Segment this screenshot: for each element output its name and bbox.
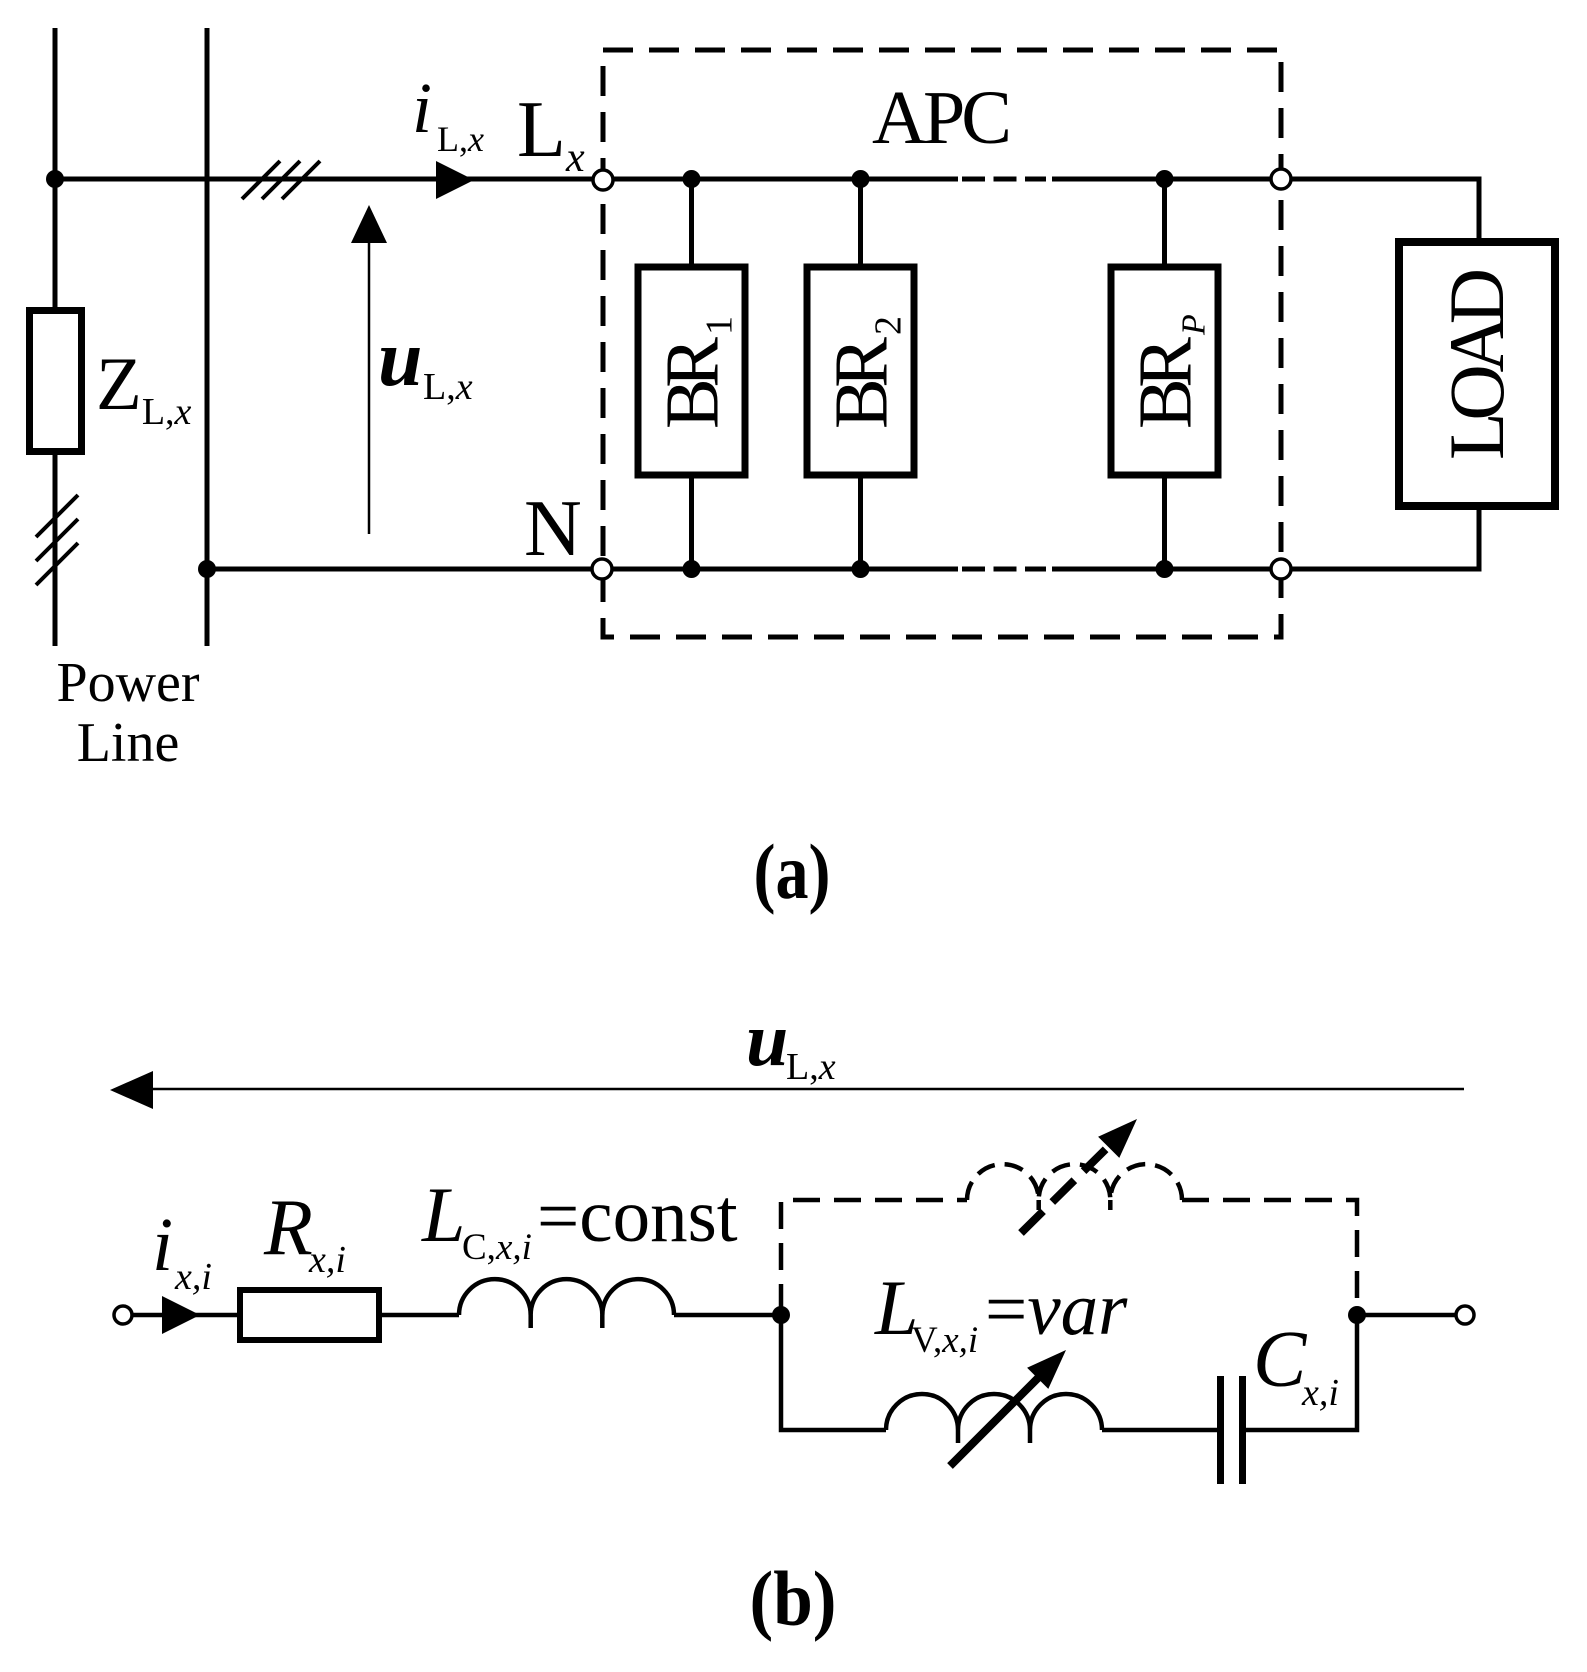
svg-text:L,x: L,x — [437, 119, 484, 159]
node dot BRP top — [1156, 170, 1174, 188]
wire top rail right with corner to LOAD — [1052, 179, 1479, 238]
node dot parallel right — [1348, 1306, 1366, 1324]
svg-text:BR: BR — [651, 337, 735, 429]
svg-text:i: i — [412, 68, 432, 148]
svg-text:u: u — [378, 315, 423, 403]
variable inductor L_V,x,i (bottom branch) — [886, 1394, 1102, 1430]
svg-text:(a): (a) — [754, 828, 831, 915]
node input open terminal — [114, 1306, 132, 1324]
node L_x open terminal — [593, 170, 613, 190]
wire output — [1357, 1313, 1456, 1318]
svg-text:C: C — [1253, 1316, 1308, 1404]
current arrow i_x,i — [162, 1296, 200, 1334]
svg-text:(b): (b) — [750, 1555, 837, 1642]
svg-text:1: 1 — [699, 316, 741, 335]
svg-text:x: x — [565, 135, 585, 181]
wire bottom rail left — [207, 567, 958, 572]
wire BR2 top stub — [858, 179, 863, 264]
variable inductor dashed cusp marks — [1039, 1200, 1111, 1210]
wire bottom rail right with corner to LOAD — [1052, 510, 1479, 569]
wire bottom branch left — [781, 1315, 886, 1430]
wire power-line bus 2 — [205, 28, 210, 646]
node output open terminal — [1456, 1306, 1474, 1324]
branch box BR1 — [638, 267, 745, 475]
wire R to L_C — [382, 1313, 459, 1318]
variable inductor dashed (top branch) — [967, 1164, 1182, 1200]
node dot parallel left — [772, 1306, 790, 1324]
branch box BRP — [1111, 267, 1218, 475]
svg-text:Power: Power — [56, 652, 199, 714]
wire power-line bus 1 lower segment — [53, 455, 58, 646]
svg-text:C,x,i: C,x,i — [462, 1227, 532, 1268]
svg-text:=var: =var — [985, 1268, 1128, 1351]
wire BR1 top stub — [689, 179, 694, 264]
wire BRP top stub — [1162, 179, 1167, 264]
svg-text:Line: Line — [77, 712, 180, 774]
break slashes on power line 1 — [36, 495, 78, 585]
wire top branch dashed left — [781, 1200, 967, 1311]
svg-text:P: P — [1176, 314, 1213, 336]
svg-text:APC: APC — [872, 76, 1012, 160]
svg-text:BR: BR — [1124, 337, 1208, 429]
svg-text:=const: =const — [537, 1175, 738, 1258]
branch box BR2 — [807, 267, 914, 475]
svg-text:BR: BR — [820, 337, 904, 429]
node dot BR2 bottom — [852, 560, 870, 578]
wire BR1 bottom stub — [689, 478, 694, 569]
node dot BR2 top — [852, 170, 870, 188]
svg-text:LOAD: LOAD — [1433, 268, 1520, 460]
svg-text:i: i — [152, 1203, 173, 1287]
node N open terminal — [592, 559, 612, 579]
capacitor C_x,i — [1221, 1376, 1243, 1484]
wire input — [132, 1313, 237, 1318]
wire L_V to capacitor — [1102, 1428, 1217, 1433]
inductor L_C,x,i — [459, 1279, 674, 1315]
resistor R_x,i — [240, 1290, 379, 1340]
wire top rail left — [55, 177, 958, 182]
voltage arrow u_L,x — [368, 242, 371, 534]
wire BRP bottom stub — [1162, 478, 1167, 569]
wire bottom rail dashed middle — [962, 567, 1046, 572]
break slashes on top rail — [242, 161, 320, 199]
svg-text:x,i: x,i — [174, 1256, 212, 1298]
svg-text:2: 2 — [868, 316, 910, 335]
svg-text:L: L — [421, 1171, 465, 1258]
variable arrow solid (bottom) — [950, 1371, 1045, 1466]
wire power-line bus 1 upper segment — [53, 28, 58, 307]
wire BR2 bottom stub — [858, 478, 863, 569]
variable arrow dashed (top) — [1021, 1145, 1110, 1233]
svg-text:V,x,i: V,x,i — [911, 1320, 978, 1361]
svg-text:N: N — [524, 485, 582, 573]
svg-text:R: R — [263, 1184, 313, 1272]
node dot power line 2 / bottom rail — [198, 560, 216, 578]
svg-text:x,i: x,i — [308, 1239, 346, 1281]
wire capacitor to right node — [1246, 1315, 1357, 1430]
wire top branch dashed right — [1182, 1200, 1357, 1311]
svg-text:L: L — [517, 86, 566, 174]
current arrow i_L,x — [436, 161, 474, 199]
APC dashed box — [603, 50, 1281, 637]
node open terminal APC right top — [1271, 169, 1291, 189]
node dot BRP bottom — [1156, 560, 1174, 578]
node open terminal APC right bottom — [1271, 559, 1291, 579]
wire top rail dashed middle — [962, 177, 1046, 182]
node dot BR1 top — [683, 170, 701, 188]
node dot BR1 bottom — [683, 560, 701, 578]
wire L_C to node — [674, 1313, 781, 1318]
svg-text:x,i: x,i — [1301, 1372, 1339, 1414]
svg-text:u: u — [746, 998, 788, 1082]
svg-text:L,x: L,x — [423, 366, 473, 408]
svg-text:L,x: L,x — [786, 1046, 836, 1088]
impedance Z_L,x — [30, 311, 82, 452]
node dot power line 1 / top rail — [46, 170, 64, 188]
voltage arrow u_L,x (b) — [153, 1088, 1464, 1091]
LOAD box — [1399, 242, 1555, 506]
